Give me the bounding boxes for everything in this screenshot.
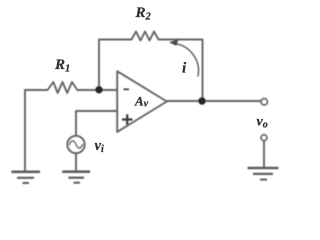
svg-text:vo: vo — [257, 115, 268, 131]
svg-text:Av: Av — [134, 94, 149, 110]
svg-text:R2: R2 — [135, 5, 152, 23]
svg-text:R1: R1 — [54, 57, 70, 75]
svg-text:i: i — [182, 61, 187, 77]
svg-text:vi: vi — [95, 138, 104, 155]
